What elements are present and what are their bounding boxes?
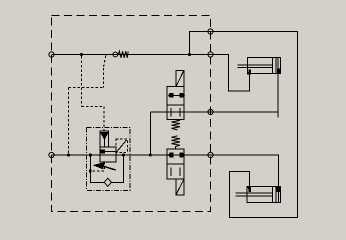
cylinder A2 rod (235, 192, 272, 194)
relief valve R1 bypass loop with diamond (90, 155, 104, 182)
port circle right 4 (208, 152, 213, 157)
cylinder A2 port flag left (248, 187, 251, 191)
cylinder A1 body (248, 58, 281, 74)
cylinder A1 rod (238, 64, 273, 66)
pilot dashed lines (69, 56, 106, 154)
valve V3 blocked position ticks (170, 167, 172, 176)
cylinder A2 body (247, 187, 280, 203)
relief valve R1 pilot minibox (116, 139, 127, 152)
relief valve R1 pilot diagonal (116, 140, 127, 153)
port circle left top (49, 52, 54, 57)
wire circle1 to junction on supply line (190, 32, 214, 55)
relief valve R1 body (100, 147, 116, 162)
wire supply top line (52, 54, 214, 56)
valve V3 solenoid box (176, 179, 184, 195)
wire stub below corner (277, 112, 279, 118)
check valve V1 spring (118, 51, 128, 58)
cylinder A1 port flag right (277, 69, 280, 74)
wire valve V2 through line to circle3 and left drop (150, 111, 213, 113)
valve V2 arrow position (170, 94, 182, 96)
cylinder A1 piston (272, 58, 274, 74)
cylinder A1 port flag left (248, 70, 251, 74)
relief valve R1 inlet triangle (101, 132, 109, 139)
port circle left bottom (49, 152, 54, 157)
valve V3 body (167, 149, 184, 179)
wire circle4 to bottom cylinder right port (213, 155, 279, 187)
cylinder A2 piston (272, 187, 274, 203)
wire bottom main line (52, 154, 214, 156)
cylinder A2 port flag right (277, 187, 280, 191)
relief valve R1 adjust arrow (103, 166, 116, 170)
valve V2 solenoid box (176, 70, 184, 86)
enclosure dashed border (52, 16, 211, 212)
relief valve R1 piston rect (100, 131, 108, 147)
wire circle2 to top cylinder left port (213, 55, 249, 92)
valve V2 spring (172, 120, 181, 130)
relief valve R1 drain pilot dashes (92, 162, 105, 171)
junction dots (67, 53, 191, 157)
wire top cylinder right port down to circle3 (208, 73, 278, 112)
wire circle1 right wrap-around to bottom cylinder left port (213, 32, 297, 218)
port circle right 2 (208, 52, 213, 57)
valve V3 arrow position (169, 153, 173, 157)
port circle right 1 (208, 29, 213, 34)
valve V3 spring (172, 136, 181, 149)
valve V2 body (167, 87, 184, 120)
relief valve R1 dashed enclosure (87, 128, 130, 191)
port circle right 3 (208, 109, 213, 114)
check valve V1 ball (113, 52, 118, 57)
valve V2 blocked position ticks (170, 108, 172, 117)
